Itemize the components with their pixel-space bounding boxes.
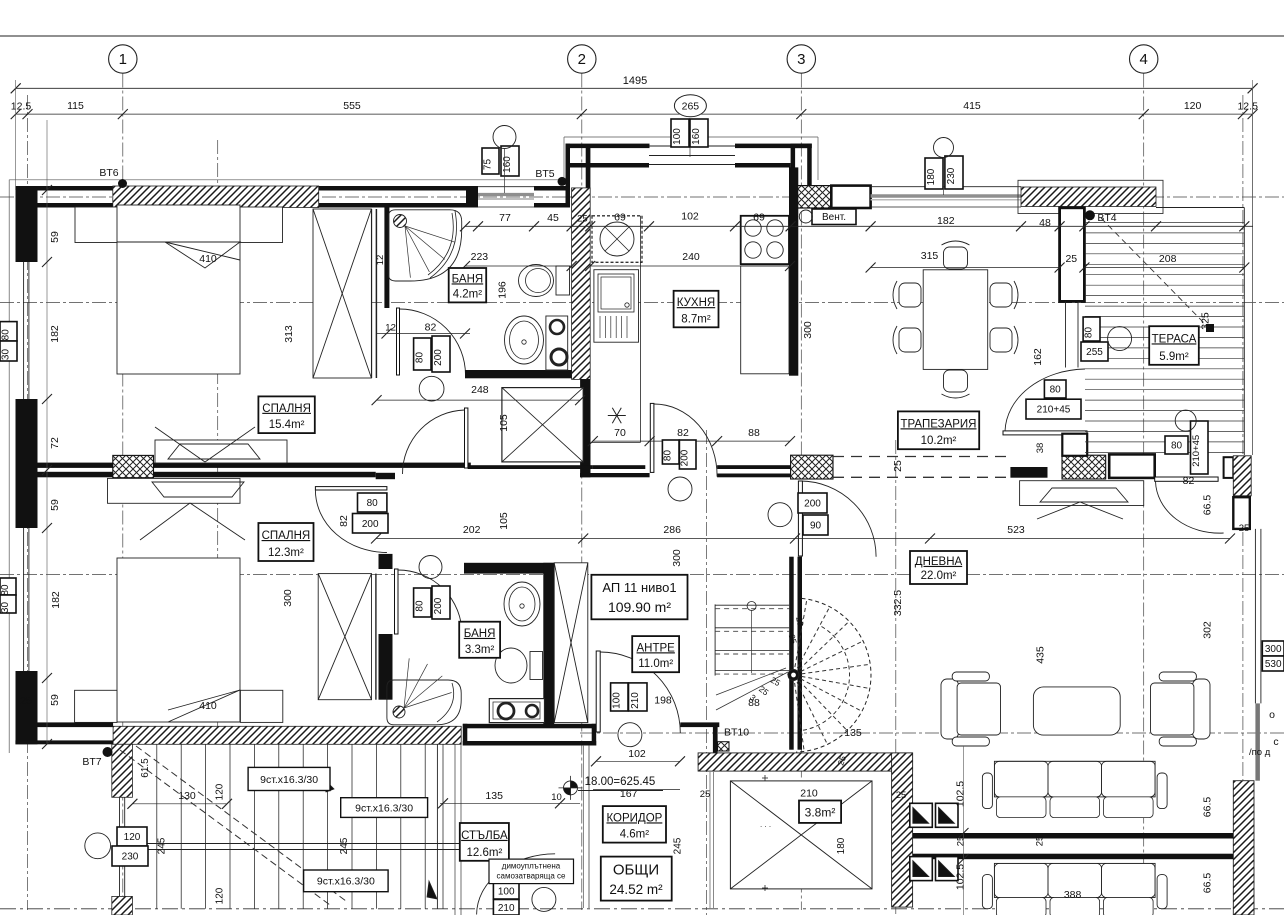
svg-text:105: 105: [498, 414, 510, 432]
svg-text:555: 555: [343, 100, 361, 112]
svg-text:24.52 m²: 24.52 m²: [609, 882, 663, 897]
svg-text:4.2m²: 4.2m²: [453, 288, 483, 300]
svg-text:СТЪЛБА: СТЪЛБА: [461, 830, 508, 842]
svg-text:9ст.x16.3/30: 9ст.x16.3/30: [317, 876, 375, 888]
svg-text:25: 25: [892, 460, 904, 472]
svg-text:182: 182: [50, 591, 62, 609]
svg-text:248: 248: [471, 384, 489, 396]
svg-text:80: 80: [1084, 327, 1095, 339]
svg-text:66.5: 66.5: [1202, 495, 1214, 516]
svg-text:12: 12: [385, 323, 396, 334]
svg-text:ДНЕВНА: ДНЕВНА: [915, 556, 963, 568]
svg-text:72: 72: [49, 437, 61, 449]
svg-text:/по д: /по д: [1249, 747, 1271, 758]
svg-text:332.5: 332.5: [892, 590, 904, 616]
svg-text:1495: 1495: [623, 75, 647, 87]
svg-text:22.0m²: 22.0m²: [921, 570, 957, 582]
svg-text:90: 90: [810, 521, 822, 532]
svg-text:димоуплътнена: димоуплътнена: [502, 862, 561, 871]
svg-text:388: 388: [1064, 889, 1082, 901]
svg-text:5.9m²: 5.9m²: [1159, 351, 1189, 363]
svg-text:302: 302: [1202, 621, 1214, 639]
svg-text:3.3m²: 3.3m²: [465, 644, 495, 656]
svg-text:198: 198: [654, 695, 672, 707]
svg-text:BT6: BT6: [99, 167, 118, 179]
svg-text:180: 180: [926, 168, 937, 185]
svg-text:2: 2: [578, 51, 586, 68]
svg-text:25: 25: [896, 790, 907, 801]
svg-text:315: 315: [921, 250, 939, 262]
svg-text:415: 415: [963, 100, 981, 112]
svg-text:102.5: 102.5: [955, 864, 967, 890]
svg-text:59: 59: [49, 499, 61, 511]
svg-text:325: 325: [1200, 312, 1212, 330]
svg-text:245: 245: [339, 837, 350, 854]
svg-text:1: 1: [119, 51, 127, 68]
svg-text:СПАЛНЯ: СПАЛНЯ: [262, 403, 311, 415]
svg-text:ОБЩИ: ОБЩИ: [613, 862, 659, 879]
svg-text:100: 100: [498, 887, 515, 898]
svg-text:210+45: 210+45: [1191, 435, 1202, 467]
svg-text:23: 23: [794, 616, 806, 627]
svg-text:3: 3: [797, 51, 805, 68]
svg-text:70: 70: [614, 427, 626, 439]
svg-text:230: 230: [946, 167, 957, 184]
svg-text:25: 25: [20, 695, 32, 707]
svg-text:80: 80: [367, 498, 379, 509]
svg-text:80: 80: [1, 329, 12, 341]
svg-text:135: 135: [485, 790, 503, 802]
svg-text:202: 202: [463, 524, 481, 536]
svg-text:80: 80: [414, 352, 425, 364]
svg-text:66.5: 66.5: [1202, 873, 1214, 894]
svg-text:210: 210: [630, 692, 641, 709]
svg-text:80: 80: [1171, 441, 1183, 452]
svg-text:82: 82: [425, 322, 437, 334]
svg-text:10.2m²: 10.2m²: [921, 435, 957, 447]
svg-text:77: 77: [499, 212, 511, 224]
svg-text:80: 80: [1050, 385, 1062, 396]
svg-text:BT5: BT5: [535, 168, 554, 180]
svg-text:80: 80: [414, 600, 425, 612]
svg-text:245: 245: [673, 837, 684, 854]
svg-text:300: 300: [671, 549, 683, 567]
svg-text:182: 182: [937, 215, 955, 227]
svg-text:223: 223: [471, 251, 489, 263]
svg-text:АНТРЕ: АНТРЕ: [637, 642, 676, 654]
svg-text:48: 48: [1039, 217, 1051, 229]
svg-text:BT7: BT7: [82, 756, 101, 768]
svg-text:о: о: [1269, 709, 1275, 721]
svg-text:120: 120: [214, 783, 225, 800]
svg-text:БАНЯ: БАНЯ: [464, 628, 496, 640]
svg-text:10: 10: [551, 792, 562, 803]
svg-text:66.5: 66.5: [1202, 797, 1214, 818]
svg-text:82: 82: [677, 427, 689, 439]
svg-text:25: 25: [700, 789, 711, 800]
svg-text:СПАЛНЯ: СПАЛНЯ: [262, 530, 311, 542]
svg-text:КУХНЯ: КУХНЯ: [677, 297, 715, 309]
svg-text:120: 120: [124, 832, 141, 843]
svg-text:100: 100: [672, 128, 683, 145]
svg-text:240: 240: [682, 251, 700, 263]
svg-text:115: 115: [67, 100, 84, 112]
svg-text:25: 25: [1035, 836, 1046, 847]
svg-text:523: 523: [1007, 524, 1025, 536]
svg-text:18.00=625.45: 18.00=625.45: [585, 776, 656, 788]
svg-text:300: 300: [802, 321, 814, 339]
svg-text:130: 130: [178, 790, 196, 802]
svg-text:160: 160: [691, 128, 702, 145]
svg-text:300: 300: [282, 589, 294, 607]
svg-text:435: 435: [1035, 646, 1047, 664]
svg-text:БАНЯ: БАНЯ: [452, 273, 484, 285]
svg-text:АП 11 ниво1: АП 11 ниво1: [602, 580, 676, 595]
svg-text:120: 120: [1184, 100, 1202, 112]
svg-text:12.3m²: 12.3m²: [268, 547, 304, 559]
svg-text:200: 200: [362, 519, 379, 530]
svg-text:BT10: BT10: [724, 727, 749, 739]
svg-text:200: 200: [433, 349, 444, 366]
svg-text:82: 82: [1183, 475, 1195, 487]
svg-text:25: 25: [956, 836, 967, 847]
svg-text:102.5: 102.5: [955, 781, 967, 807]
svg-text:162: 162: [1032, 348, 1044, 366]
svg-text:160: 160: [502, 156, 513, 173]
svg-text:196: 196: [496, 281, 508, 299]
svg-text:530: 530: [1265, 659, 1282, 670]
svg-text:Вент.: Вент.: [822, 212, 846, 223]
svg-text:8.7m²: 8.7m²: [681, 313, 711, 325]
svg-text:11.0m²: 11.0m²: [638, 658, 673, 670]
svg-text:286: 286: [663, 524, 681, 536]
svg-text:КОРИДОР: КОРИДОР: [606, 812, 662, 824]
svg-text:410: 410: [199, 253, 217, 265]
svg-text:313: 313: [283, 325, 295, 343]
svg-text:102: 102: [681, 211, 699, 223]
svg-text:12.6m²: 12.6m²: [467, 847, 503, 859]
svg-text:69: 69: [614, 212, 626, 224]
svg-text:12: 12: [375, 255, 386, 266]
svg-text:410: 410: [199, 700, 217, 712]
svg-text:182: 182: [49, 325, 61, 343]
svg-text:61.5: 61.5: [140, 758, 151, 778]
svg-text:100: 100: [611, 692, 622, 709]
svg-text:. . .: . . .: [760, 820, 771, 829]
svg-text:3.8m²: 3.8m²: [805, 806, 836, 820]
svg-text:300: 300: [1265, 644, 1282, 655]
svg-text:9ст.x16.3/30: 9ст.x16.3/30: [260, 774, 318, 786]
svg-text:ТЕРАСА: ТЕРАСА: [1152, 333, 1197, 345]
svg-text:80: 80: [0, 584, 11, 596]
svg-text:45: 45: [547, 212, 559, 224]
svg-text:ТРАПЕЗАРИЯ: ТРАПЕЗАРИЯ: [900, 418, 976, 430]
svg-text:245: 245: [157, 837, 168, 854]
svg-text:102: 102: [628, 748, 646, 760]
svg-text:210: 210: [498, 903, 515, 914]
svg-text:210+45: 210+45: [1037, 405, 1071, 416]
svg-text:69: 69: [753, 212, 765, 224]
svg-text:25: 25: [577, 214, 588, 225]
svg-text:210: 210: [800, 788, 818, 800]
svg-text:109.90 m²: 109.90 m²: [608, 599, 671, 615]
svg-text:120: 120: [214, 887, 225, 904]
svg-text:255: 255: [1086, 347, 1103, 358]
svg-text:75: 75: [483, 159, 494, 171]
svg-text:25: 25: [1239, 523, 1250, 534]
svg-text:200: 200: [680, 449, 691, 466]
svg-text:200: 200: [804, 499, 821, 510]
svg-text:230: 230: [122, 852, 139, 863]
svg-text:с: с: [1273, 736, 1278, 748]
svg-text:BT4: BT4: [1097, 212, 1116, 224]
svg-text:135: 135: [844, 727, 862, 739]
svg-text:88: 88: [748, 427, 760, 439]
svg-text:30: 30: [0, 602, 11, 614]
svg-text:30: 30: [1, 349, 12, 361]
svg-text:12.5: 12.5: [11, 101, 32, 113]
svg-text:9ст.x16.3/30: 9ст.x16.3/30: [355, 802, 413, 814]
svg-text:180: 180: [836, 837, 847, 854]
svg-text:88: 88: [748, 697, 760, 709]
svg-text:80: 80: [663, 450, 674, 462]
svg-text:самозатваряща се: самозатваряща се: [497, 872, 566, 881]
svg-text:265: 265: [682, 101, 700, 113]
svg-text:59: 59: [49, 231, 61, 243]
svg-text:208: 208: [1159, 253, 1177, 265]
svg-text:59: 59: [49, 694, 61, 706]
svg-text:4.6m²: 4.6m²: [620, 829, 650, 841]
svg-text:82: 82: [338, 515, 350, 527]
svg-text:25: 25: [1065, 253, 1077, 265]
svg-text:38: 38: [1035, 443, 1046, 454]
svg-text:200: 200: [433, 597, 444, 614]
svg-text:12.5: 12.5: [1237, 101, 1258, 113]
svg-text:4: 4: [1140, 51, 1148, 68]
svg-text:15.4m²: 15.4m²: [269, 419, 305, 431]
svg-text:105: 105: [498, 512, 510, 530]
